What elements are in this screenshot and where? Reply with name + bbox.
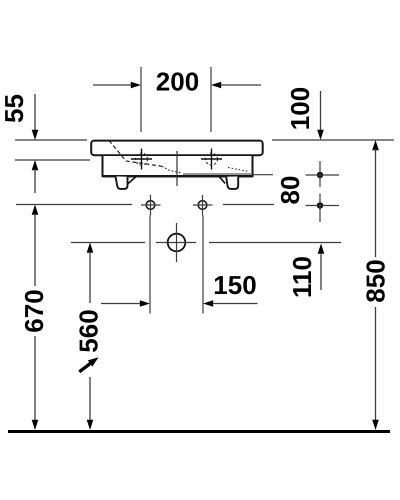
dimension 55 lower arrow [32,160,39,170]
washbasin interior dashed contour [109,141,162,167]
washbasin rim [91,141,263,156]
dimension 150 left arrow [101,303,142,305]
reference line rim-top left [15,139,87,141]
dimension 670 line [32,205,39,215]
washbasin right far-foot edge [219,177,225,184]
dimension 150 right arrow [203,300,213,307]
drain hole [168,234,186,252]
faucet hole left cross [131,158,152,160]
reference line rim-top right [272,139,394,141]
dimension 150 extension line right [202,216,204,314]
washbasin inner bottom line [183,173,251,175]
svg-text:110: 110 [287,256,317,298]
svg-text:55: 55 [0,94,29,123]
washbasin right foot [226,176,238,189]
dimension 200 left arrow [93,84,131,86]
fixing hole right [198,201,207,210]
svg-text:150: 150 [213,270,256,300]
washbasin centerline [176,151,178,186]
floor line [8,430,390,433]
washbasin left far-foot edge [128,177,136,184]
dimension 80 upper dot [317,172,323,178]
faucet hole right cross [201,158,222,160]
svg-text:560: 560 [74,309,104,352]
dimension 200 extension line left [140,67,142,132]
svg-text:200: 200 [156,67,199,97]
svg-text:100: 100 [285,87,315,130]
dimension 80 lower dot [317,202,323,208]
dimension 850 line [372,140,379,150]
svg-text:850: 850 [361,259,391,302]
dimension 150 extension line left [149,216,151,314]
reference line fixing-holes right [223,204,274,206]
washbasin body [103,156,253,176]
reference line sink-bottom right [252,174,273,176]
dimension 100 arrow [320,91,322,131]
dimension 55 upper arrow [34,94,36,131]
reference line rim-bottom left [15,159,90,161]
fixing hole left [146,201,155,210]
washbasin left foot [116,176,128,189]
svg-text:80: 80 [275,176,305,205]
dimension 110 arrow [318,244,325,254]
svg-text:670: 670 [19,289,49,332]
adjustable height arrow [79,363,90,372]
dimension 200 right arrow [211,82,221,89]
dimension 560 line [87,243,94,253]
reference line fixing-holes left [16,204,132,206]
reference line drain-height left [71,242,145,244]
dimension 200 extension line right [210,67,212,132]
reference line drain-height right [209,242,341,244]
